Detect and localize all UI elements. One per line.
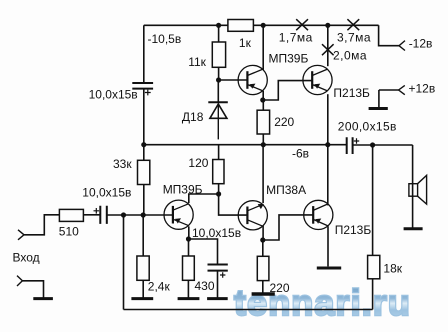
transistor Q4 МП38А [238, 201, 267, 230]
node D Q3 emitter [186, 236, 191, 241]
diode Д18 triangle [210, 104, 227, 118]
transistor Q5 П213Б lower [304, 200, 333, 229]
wire bottom feedback rail [124, 309, 373, 311]
capacitor C3 200,0x15в plates [347, 137, 353, 154]
wire node E to 220 lower resistor [262, 240, 264, 256]
wire 33к bottom to base node [143, 185, 145, 216]
wire input to 510 [24, 215, 59, 235]
svg-text:10,0х15в: 10,0х15в [89, 87, 138, 101]
ground G6 under speaker [404, 227, 423, 230]
node top rail / 11к [216, 23, 221, 28]
capacitor C4 plates [208, 265, 228, 271]
resistor 1к body on top rail [228, 20, 254, 32]
wire Q4 collector up to -6в rail [262, 145, 264, 203]
svg-text:220: 220 [270, 281, 290, 295]
svg-text:220: 220 [274, 115, 294, 129]
svg-text:10,0х15в: 10,0х15в [192, 226, 241, 240]
speaker cone [418, 175, 427, 204]
wire input lower to ground [22, 281, 43, 298]
svg-text:11к: 11к [188, 55, 206, 69]
wire C2 to Q3 base [107, 214, 173, 216]
break X3 2,0ма [322, 44, 334, 55]
terminal -12в arrowhead [399, 41, 405, 51]
transistor Q3 МП39Б lower [164, 200, 193, 229]
svg-text:1,7ма: 1,7ма [279, 31, 313, 45]
resistor 220 (upper) body [257, 110, 270, 134]
capacitor C4 plus sign [220, 272, 225, 277]
svg-text:-6в: -6в [292, 146, 309, 160]
node input / feedback [121, 212, 126, 217]
ground G5 under Q5 [317, 267, 341, 270]
wire C4 bottom to ground [217, 271, 219, 298]
svg-text:120: 120 [188, 156, 208, 170]
svg-text:+12в: +12в [409, 82, 436, 96]
wire node B to 220 top resistor [262, 100, 264, 110]
wire 430 to ground [187, 280, 189, 298]
node top rail / Q2 collector [325, 23, 330, 28]
diode Д18 cathode bar [208, 101, 228, 103]
current break marks [296, 19, 359, 55]
node input / 33к-2,4к [141, 212, 146, 217]
wire 220 bottom to -6в rail [262, 134, 264, 145]
wire +12в line [379, 89, 399, 91]
ground G3 under 430 [178, 297, 200, 300]
break X2 3,7ма [347, 19, 359, 30]
transistor Q1 МП39Б upper [238, 65, 267, 94]
wire base node down to 2,4к [142, 215, 144, 256]
node A 11к/diode/base [216, 77, 221, 82]
capacitor C1 plus sign [145, 90, 151, 96]
wire node E to Q5 base [263, 215, 313, 240]
resistor 510 body [59, 209, 83, 221]
node rail / Q2-Q5 [325, 142, 330, 147]
node E Q4 emitter [260, 237, 265, 242]
capacitor C1 10,0x15в plates [132, 83, 153, 89]
wire C1 bottom to rail [143, 89, 145, 161]
node top rail / Q1 collector [261, 23, 266, 28]
terminal input arrowhead [18, 230, 24, 240]
wire node D to 430 [188, 239, 190, 256]
wire 11к branch from top rail [218, 25, 220, 42]
wire +12в down to ground [378, 90, 380, 108]
wire Q2 emitter down through -6в rail to Q5 collector [327, 94, 329, 205]
svg-text:510: 510 [59, 225, 79, 239]
wire 220 lower to ground [262, 281, 264, 293]
svg-text:10,0х15в: 10,0х15в [82, 185, 131, 199]
wire 120 bottom to node C [218, 184, 220, 194]
capacitor C2 plates [100, 206, 107, 224]
wire 510 to C2 [83, 214, 100, 216]
wire feedback rail up to input node [123, 215, 125, 310]
wire C3 right plate to speaker branch [353, 144, 413, 146]
resistor 220 (lower) body [257, 256, 269, 280]
wire output node down to 18к [372, 145, 374, 255]
svg-text:18к: 18к [383, 262, 402, 276]
svg-text:МП38А: МП38А [266, 183, 306, 197]
resistor 18к body [368, 255, 380, 278]
ground G4 under C4 [207, 297, 228, 300]
capacitor C3 plus sign [354, 138, 359, 143]
node output / 18к [370, 142, 375, 147]
ground G2 under 2,4к [131, 297, 153, 300]
svg-text:П213Б: П213Б [335, 223, 372, 237]
ground G7 under +12в [369, 107, 388, 110]
wire 18к bottom to feedback rail [372, 279, 374, 310]
terminal input ground arrowhead [17, 276, 22, 286]
wire 120 branch from -6в rail [218, 145, 220, 160]
resistor 33к body [138, 160, 150, 184]
wire Q5 emitter to ground [327, 226, 329, 266]
svg-text:33к: 33к [113, 157, 132, 171]
svg-text:МП39Б: МП39Б [269, 51, 309, 65]
wire -6в rail [144, 144, 347, 146]
diode Д18 anode stub (open end) [217, 104, 219, 139]
wire node C to Q3 collector [189, 194, 219, 203]
svg-text:3,7ма: 3,7ма [337, 31, 371, 45]
terminal +12в arrowhead [399, 85, 405, 94]
svg-text:1к: 1к [239, 36, 252, 50]
wire top supply rail [144, 24, 379, 26]
resistor 2,4к body [137, 256, 149, 280]
wire Q1 emitter to node B [262, 91, 264, 100]
wire 2,4к to ground [142, 280, 144, 298]
capacitor C2 plus sign [94, 208, 100, 214]
resistor 120 body [213, 160, 224, 184]
ground G1 input [33, 297, 53, 300]
node rail / 220 upper [261, 142, 266, 147]
svg-text:430: 430 [195, 279, 215, 293]
node rail left corner [141, 142, 146, 147]
wire node D to C4 [189, 239, 218, 264]
resistor 430 body [183, 256, 195, 280]
svg-text:200,0х15в: 200,0х15в [338, 120, 397, 134]
wire Q4 emitter down to node E [262, 226, 264, 240]
svg-text:-10,5в: -10,5в [148, 32, 182, 46]
wire Q3 emitter down [188, 226, 190, 239]
svg-text:П213Б: П213Б [333, 86, 370, 100]
wire node A to base of Q1 [219, 79, 248, 81]
wire node C down to Q4 base [219, 194, 248, 215]
svg-text:Вход: Вход [13, 250, 40, 264]
transistor Q2 П213Б upper [303, 65, 332, 94]
speaker body rectangle [409, 184, 418, 197]
svg-text:-12в: -12в [409, 37, 433, 51]
wire left vertical from top rail to capacitor C1 [143, 25, 145, 82]
svg-text:tennari.ru: tennari.ru [234, 282, 411, 323]
wire speaker branch down [412, 145, 414, 228]
svg-text:2,0ма: 2,0ма [333, 48, 367, 62]
node B Q1 emitter [260, 97, 265, 102]
break X1 1,7ма [296, 19, 308, 30]
resistor 11к body [212, 42, 225, 67]
wire Q1 collector to top rail [262, 25, 264, 70]
node C 120 / Q3 collector [216, 191, 221, 196]
wire node A down to diode D18 [217, 80, 219, 102]
svg-text:МП39Б: МП39Б [163, 182, 203, 196]
wire node B to base of Q2 [263, 81, 312, 100]
wire Q2 collector up to top rail [327, 25, 329, 66]
ground G8 under 220 lower [252, 292, 275, 296]
wire -12в branch from top rail [379, 25, 399, 45]
svg-text:2,4к: 2,4к [148, 280, 171, 294]
svg-text:Д18: Д18 [182, 110, 204, 124]
wire 11к bottom to node A [218, 67, 220, 80]
